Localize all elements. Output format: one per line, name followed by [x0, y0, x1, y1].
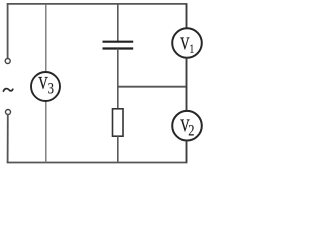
AC source: sine (~) symbol	[3, 89, 12, 92]
terminal: AC source upper open terminal	[5, 59, 10, 64]
wire: capacitor branch upper segment	[117, 4, 119, 42]
svg-text:1: 1	[189, 42, 194, 56]
capacitor: top plate	[103, 41, 134, 43]
svg-text:3: 3	[48, 80, 54, 98]
wire: left lead from top corner to source terminal	[7, 4, 9, 59]
voltmeter V3: circle	[31, 72, 60, 101]
voltmeter V2: circle	[172, 111, 202, 141]
wire: right branch middle (V1 to V2)	[186, 58, 188, 112]
svg-text:V: V	[180, 35, 189, 54]
wire: resistor bottom lead	[117, 136, 119, 162]
svg-text:2: 2	[188, 122, 194, 140]
wire: V3 branch upper segment	[45, 4, 47, 72]
wire: capacitor to resistor segment	[117, 49, 119, 109]
wire: left lead from lower terminal to bottom corner	[7, 114, 9, 162]
wire: top bus	[7, 3, 188, 5]
svg-text:V: V	[38, 74, 47, 93]
wire: junction from middle branch to right branch	[118, 86, 187, 88]
wire: bottom bus	[7, 162, 188, 164]
resistor R: body	[113, 109, 124, 136]
wire: right branch top (top bus to V1)	[186, 4, 188, 29]
voltmeter V1: circle	[172, 28, 202, 58]
wire: V3 branch lower segment	[45, 101, 47, 163]
capacitor: bottom plate	[103, 47, 134, 49]
terminal: AC source lower open terminal	[6, 110, 11, 115]
wire: right branch bottom (V2 to bottom bus)	[186, 141, 188, 163]
